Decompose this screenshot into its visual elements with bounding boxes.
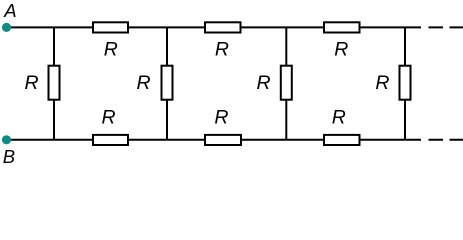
wire vertical branch 3 xyxy=(285,27,287,139)
resistor R top 1 xyxy=(93,22,128,32)
svg-text:R: R xyxy=(102,107,116,129)
resistor R bottom 2 xyxy=(205,135,241,145)
node B terminal dot xyxy=(2,135,11,144)
svg-text:R: R xyxy=(214,107,228,129)
svg-text:R: R xyxy=(332,107,346,129)
wire vertical branch 4 xyxy=(404,27,406,139)
resistor R bottom 3 xyxy=(324,135,360,145)
resistor R shunt 1 xyxy=(49,66,60,100)
svg-text:R: R xyxy=(215,39,229,61)
resistor R shunt 2 xyxy=(162,66,173,100)
svg-text:A: A xyxy=(3,0,16,21)
resistor R top 2 xyxy=(205,22,241,32)
node A terminal dot xyxy=(2,23,11,32)
wire bottom rail xyxy=(9,139,421,141)
wire vertical branch 1 xyxy=(53,27,55,139)
svg-text:R: R xyxy=(25,72,39,94)
wire top rail xyxy=(9,26,421,28)
svg-text:B: B xyxy=(3,146,15,167)
resistor R shunt 3 xyxy=(281,66,292,100)
svg-text:R: R xyxy=(137,72,151,94)
svg-text:R: R xyxy=(257,72,271,94)
resistor R top 3 xyxy=(324,22,360,32)
resistor R bottom 1 xyxy=(93,135,128,145)
svg-text:R: R xyxy=(334,39,348,61)
wire top rail dashed continuation xyxy=(429,26,463,28)
resistor R shunt 4 xyxy=(400,66,411,100)
wire bottom rail dashed continuation xyxy=(429,139,463,141)
svg-text:R: R xyxy=(375,72,389,94)
wire vertical branch 2 xyxy=(166,27,168,139)
svg-text:R: R xyxy=(104,39,118,61)
